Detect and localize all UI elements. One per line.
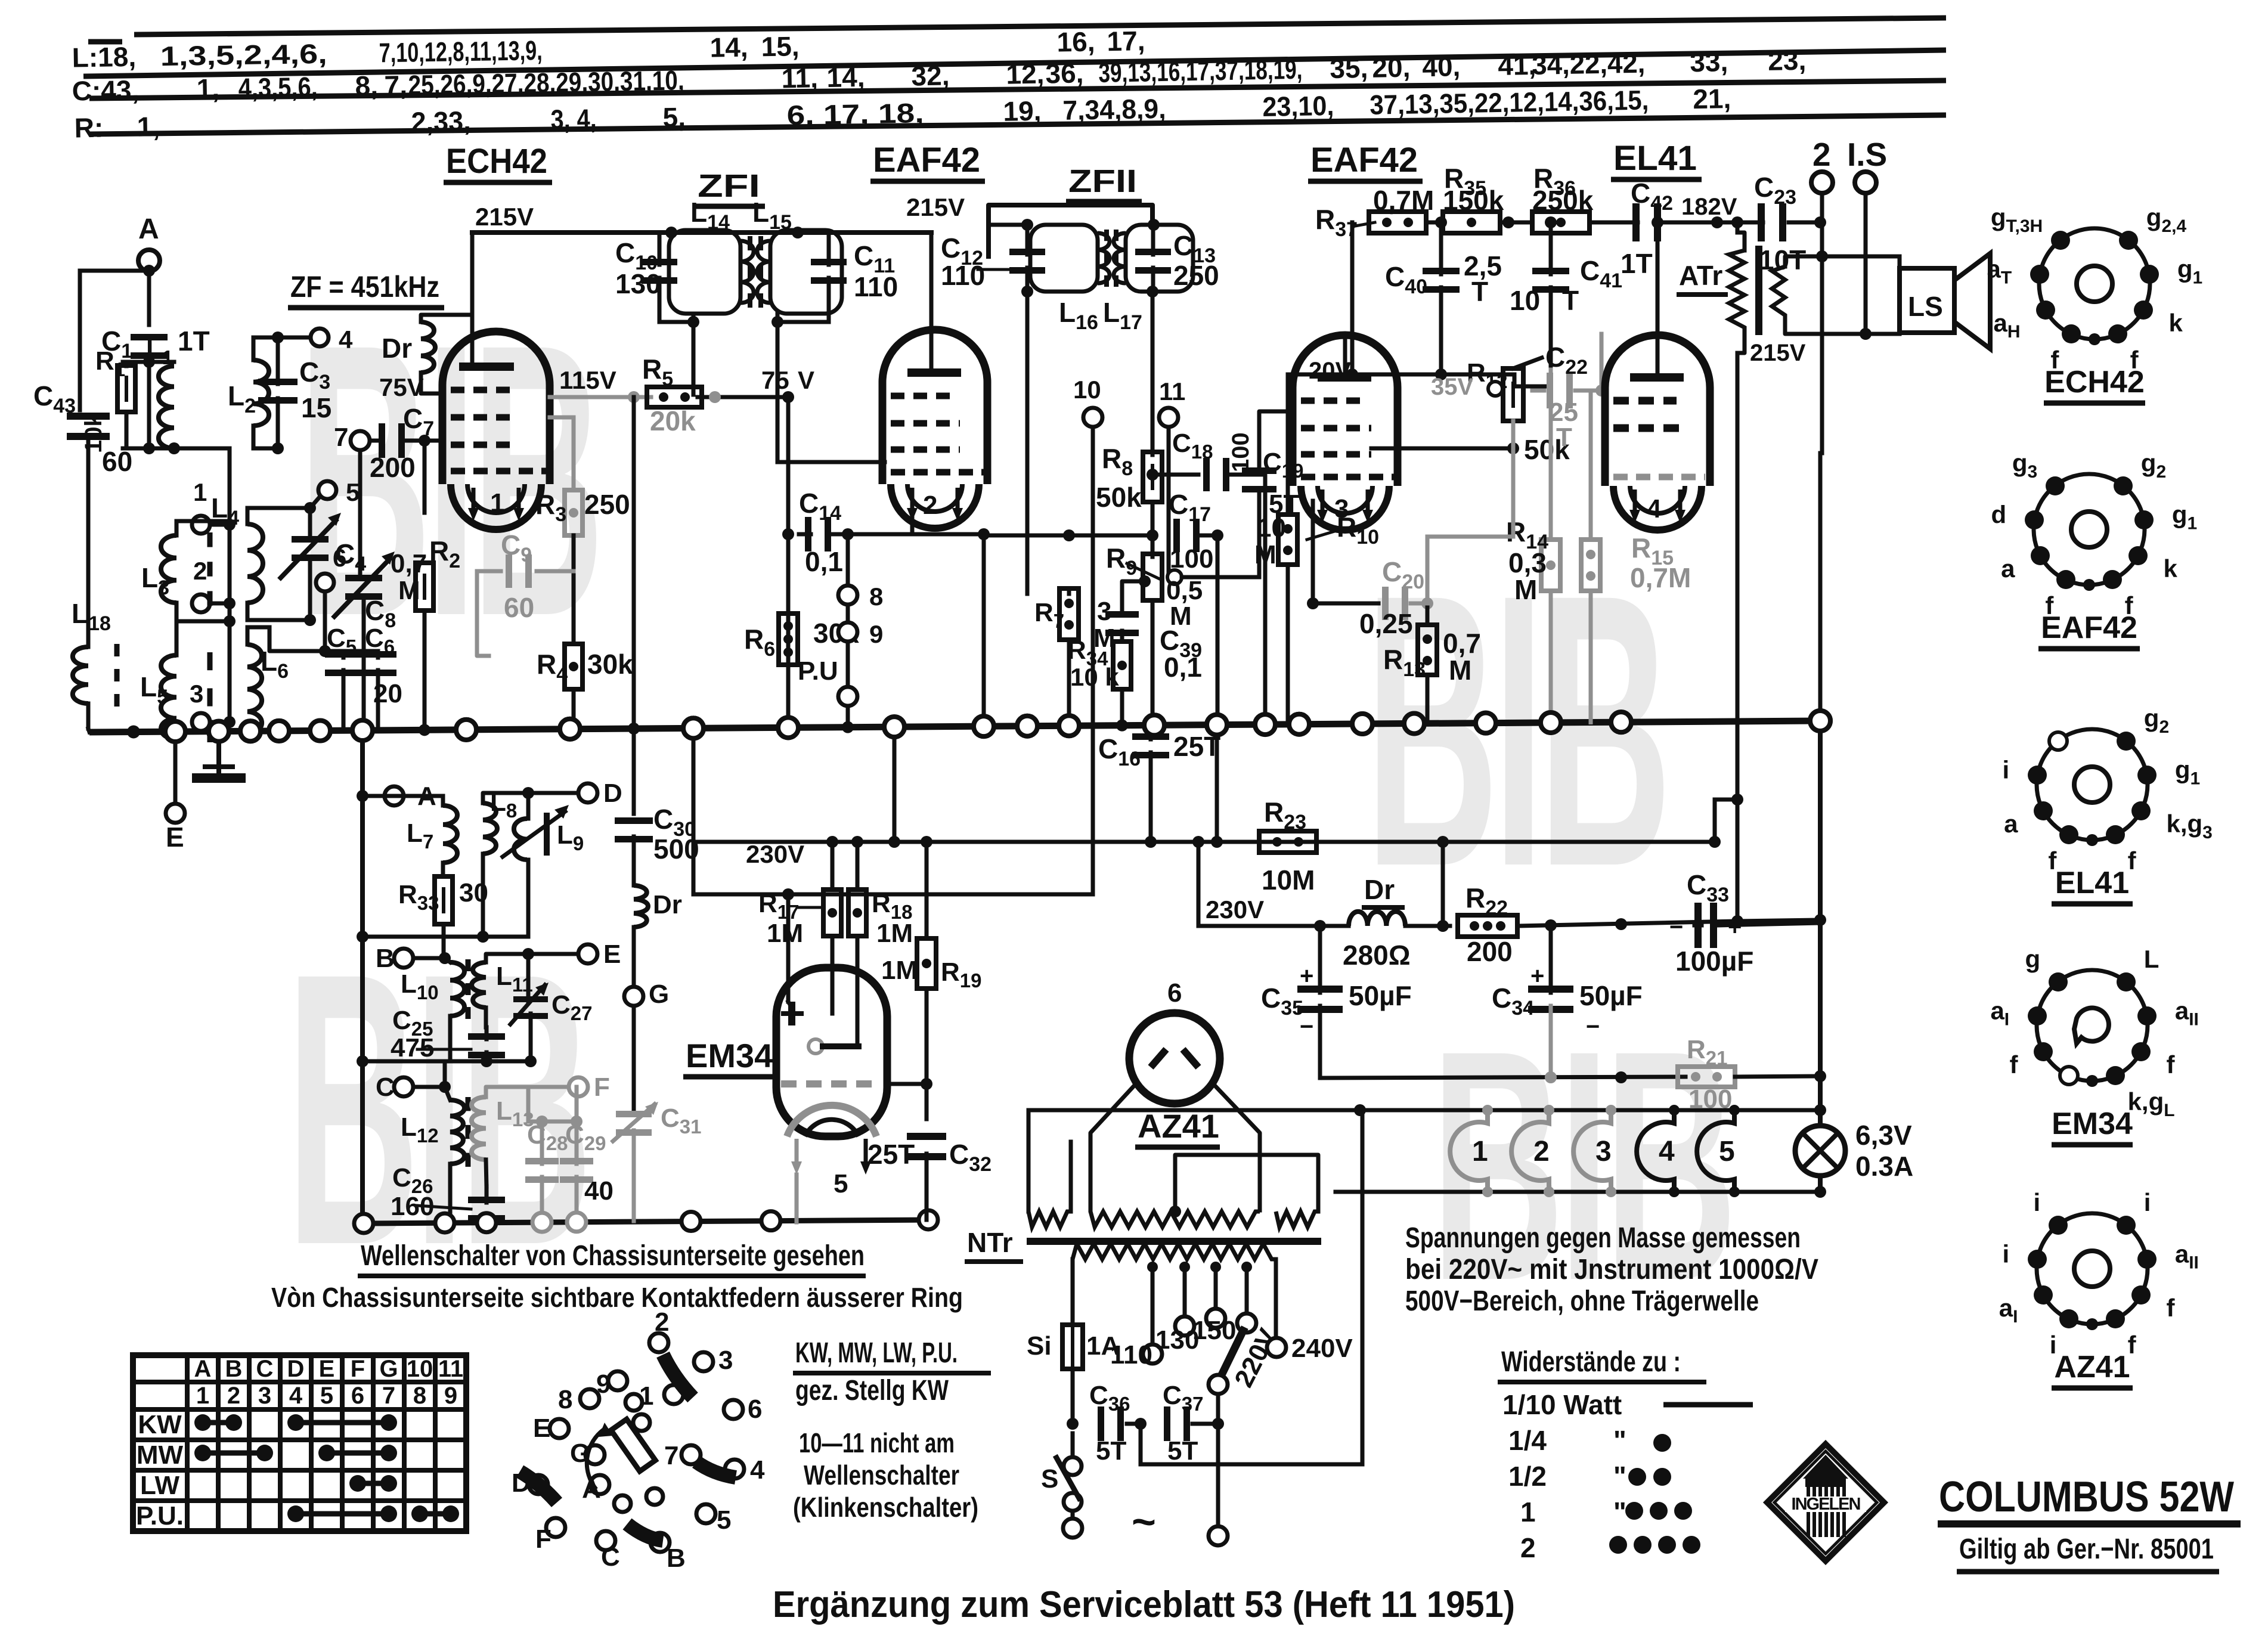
svg-text:0,1: 0,1	[805, 546, 843, 577]
wire C11 top	[827, 233, 831, 265]
wire ZFII right to C18	[1152, 473, 1198, 477]
junction	[1212, 529, 1223, 541]
resistor	[1443, 212, 1500, 233]
junction	[792, 227, 804, 238]
wire to E	[528, 952, 578, 956]
wire C6 to bus	[376, 670, 380, 730]
svg-text:6: 6	[1167, 978, 1182, 1008]
coil	[443, 805, 457, 863]
wire	[1532, 389, 1544, 393]
winding	[1090, 1212, 1260, 1227]
terminal	[351, 431, 370, 450]
svg-text:1A: 1A	[1086, 1331, 1120, 1361]
terminal	[1206, 1309, 1225, 1328]
wire	[528, 1120, 577, 1124]
socket AZ41	[2037, 1213, 2148, 1324]
svg-text:25,26,9,27,28,29,30,31,10,: 25,26,9,27,28,29,30,31,10,	[408, 64, 684, 100]
wire	[413, 1085, 445, 1089]
wire	[1820, 256, 1824, 453]
svg-text:−: −	[1300, 1014, 1313, 1040]
svg-text:V: V	[798, 366, 814, 394]
wire up to tube	[910, 495, 915, 534]
junction	[439, 952, 451, 964]
wire terminal IS down	[1864, 193, 1868, 334]
wire 75V vertical	[786, 397, 791, 727]
capacitor	[1632, 203, 1661, 241]
capacitor	[325, 651, 362, 676]
junction	[1502, 216, 1514, 228]
svg-text:240V: 240V	[1291, 1334, 1353, 1363]
parts list rule 1	[134, 18, 1946, 35]
variable capacitor	[292, 536, 329, 561]
wire R34 to bus	[1120, 690, 1124, 726]
switch contact 3	[694, 1352, 713, 1371]
junction	[1147, 286, 1158, 298]
svg-text:2: 2	[1520, 1532, 1536, 1563]
svg-text:R:: R:	[74, 112, 103, 144]
resistor	[1418, 625, 1437, 675]
svg-text:L: L	[2144, 945, 2159, 973]
junction	[1063, 529, 1075, 541]
junction	[1709, 836, 1721, 848]
wire ATr primary top	[1737, 233, 1745, 250]
wire L5 to bus	[175, 732, 179, 739]
wire L18 to bus	[86, 704, 91, 729]
terminal	[1064, 1493, 1082, 1511]
junction	[1435, 368, 1447, 380]
chassis connection	[209, 721, 229, 742]
resistor	[565, 644, 583, 689]
svg-text:AZ41: AZ41	[1138, 1107, 1219, 1145]
svg-text:G: G	[649, 980, 669, 1009]
EM34 arrows	[795, 1139, 799, 1169]
svg-text:AZ41: AZ41	[2054, 1350, 2130, 1384]
wire	[1822, 332, 1900, 336]
resistor	[1541, 540, 1560, 591]
svg-text:EAF42: EAF42	[1310, 141, 1418, 179]
wire	[334, 649, 378, 653]
svg-text:280Ω: 280Ω	[1343, 940, 1411, 971]
wire	[1336, 1190, 1820, 1194]
tube V4 EL41	[1605, 335, 1710, 486]
wire	[483, 793, 528, 803]
tube V6 EM34	[776, 968, 887, 1136]
wire L4 top	[246, 508, 250, 524]
wire	[123, 360, 174, 364]
chassis connection	[1810, 711, 1830, 731]
svg-text:": "	[1613, 1497, 1626, 1528]
capacitor	[379, 423, 405, 458]
svg-text:C: C	[256, 1356, 274, 1382]
svg-text:k: k	[2163, 554, 2177, 583]
svg-text:ZF = 451kHz: ZF = 451kHz	[290, 270, 439, 303]
wire	[510, 985, 545, 1024]
terminal	[1083, 408, 1102, 427]
svg-text:": "	[1613, 1425, 1626, 1456]
wire	[443, 1061, 447, 1087]
svg-text:M: M	[1093, 624, 1116, 653]
wire	[485, 1186, 489, 1203]
row C numbers	[72, 45, 1806, 107]
svg-text:100µF: 100µF	[1675, 946, 1753, 977]
svg-text:E: E	[319, 1356, 335, 1382]
resistor	[1503, 368, 1523, 421]
junction	[1147, 469, 1158, 481]
wire	[693, 840, 1715, 844]
switch contact E	[550, 1419, 569, 1438]
chassis connection	[560, 719, 580, 739]
chassis connection	[165, 721, 185, 742]
junction	[1139, 575, 1151, 587]
terminal	[394, 1077, 413, 1096]
terminal	[838, 687, 857, 706]
core	[207, 532, 213, 606]
switch contact 1	[664, 1385, 683, 1404]
terminal	[578, 944, 597, 963]
LW contacts	[358, 1481, 389, 1486]
wire C34 top	[1549, 926, 1553, 993]
wire 20V node	[1288, 373, 1441, 377]
capacitor	[1423, 268, 1460, 293]
loudspeaker LS	[1900, 268, 1954, 333]
svg-text:G: G	[379, 1356, 398, 1382]
wire	[659, 320, 693, 324]
chassis connection	[1059, 715, 1079, 736]
wire grid leak down	[423, 441, 427, 513]
switch contact 5	[696, 1504, 715, 1523]
svg-text:4: 4	[339, 326, 353, 354]
wire R14 to bus	[1549, 591, 1553, 723]
wire	[893, 727, 897, 839]
INGELEN logo	[1767, 1444, 1884, 1561]
svg-text:32,: 32,	[911, 60, 950, 91]
resistor	[1278, 515, 1297, 565]
wire C33 to rail	[1717, 923, 1820, 925]
wire	[1350, 334, 1355, 374]
tube V2 EAF42	[882, 330, 987, 484]
svg-text:COLUMBUS 52W: COLUMBUS 52W	[1939, 1473, 2234, 1521]
junction	[1507, 442, 1519, 454]
svg-text:k: k	[2168, 309, 2183, 337]
wire C40 top	[1439, 230, 1443, 274]
junction	[782, 391, 794, 403]
switch contact C	[596, 1531, 615, 1550]
wire C11 bottom	[827, 278, 831, 322]
electrode	[823, 1043, 859, 1049]
wire to C33	[1737, 920, 1820, 921]
svg-text:6,3V: 6,3V	[1855, 1120, 1912, 1151]
junction	[1354, 1104, 1366, 1116]
capacitor	[615, 817, 653, 842]
fuse Si 1A	[1062, 1325, 1083, 1369]
wire R1 bottom	[125, 413, 129, 448]
chassis connection	[1611, 712, 1631, 732]
terminal	[1209, 1526, 1228, 1545]
junction	[1860, 328, 1872, 340]
svg-text:200: 200	[1467, 936, 1513, 967]
svg-text:KW: KW	[138, 1410, 182, 1439]
switch contact D	[529, 1475, 548, 1494]
svg-text:C: C	[376, 1073, 395, 1102]
svg-text:0,1: 0,1	[1164, 652, 1202, 683]
svg-text:a: a	[2004, 810, 2018, 838]
wire	[1151, 453, 1155, 455]
pot arrow	[1513, 358, 1542, 368]
switch contact B	[650, 1533, 670, 1552]
rotor arrow	[587, 1430, 603, 1489]
svg-text:0,5: 0,5	[1166, 576, 1203, 605]
capacitor	[1098, 1406, 1124, 1441]
svg-text:23,: 23,	[1768, 45, 1807, 76]
wire ZFI sec to grid	[776, 322, 780, 462]
wire bus to C16	[1149, 725, 1153, 739]
capacitor	[1528, 986, 1573, 1013]
IF transformer ZFI primary box	[669, 230, 740, 314]
svg-text:34,22,42,: 34,22,42,	[1532, 48, 1646, 80]
svg-text:14,: 14,	[826, 61, 865, 93]
wire R5 right	[698, 395, 788, 399]
wire anode to 215V rail	[470, 233, 475, 362]
wire R19 down	[925, 989, 929, 1119]
wire 7 to C8	[358, 450, 362, 574]
row R numbers	[74, 83, 1731, 143]
wire Dr top	[421, 315, 472, 322]
EM34 target arcs	[787, 1105, 876, 1136]
capacitor	[642, 259, 677, 284]
svg-text:Giltig ab Ger.−Nr. 85001: Giltig ab Ger.−Nr. 85001	[1959, 1533, 2214, 1565]
junction	[842, 721, 854, 733]
wire R10 to bus	[1286, 565, 1290, 724]
wire from terminal 1	[210, 523, 230, 527]
svg-text:215V: 215V	[1750, 340, 1806, 366]
junction	[477, 931, 489, 943]
chassis connection	[974, 716, 994, 736]
wire L2-C3 top	[253, 336, 310, 340]
capacitor	[1242, 467, 1276, 492]
svg-text:ECH42: ECH42	[446, 142, 547, 181]
svg-text:+: +	[1530, 963, 1544, 989]
wire	[540, 1121, 544, 1164]
wire R12 to tube	[1371, 447, 1513, 451]
wire	[481, 854, 485, 937]
wire	[1426, 221, 1443, 225]
ECH42 anode bar	[459, 362, 514, 371]
wire	[362, 1059, 531, 1064]
svg-text:75: 75	[761, 366, 789, 394]
junction	[1814, 216, 1826, 228]
svg-text:6: 6	[351, 1383, 364, 1409]
wire	[1694, 924, 1702, 928]
svg-text:5,: 5,	[662, 101, 686, 133]
wire bus to C30	[632, 729, 636, 814]
core	[207, 652, 213, 742]
svg-text:37,13,35,22,12,14,36,15,: 37,13,35,22,12,14,36,15,	[1370, 84, 1649, 120]
wire antenna down	[147, 271, 151, 325]
svg-text:5: 5	[1719, 1136, 1735, 1167]
capacitor	[1758, 203, 1786, 241]
wire	[376, 651, 380, 658]
svg-text:130: 130	[615, 268, 661, 299]
svg-text:4: 4	[289, 1383, 303, 1409]
wire	[175, 621, 179, 655]
svg-text:A: A	[138, 213, 159, 245]
EM34 dashes	[781, 1080, 872, 1087]
row L numbers	[72, 25, 1145, 73]
socket EM34	[2037, 970, 2148, 1081]
junction	[1731, 915, 1743, 927]
switch contact	[625, 1394, 642, 1411]
junction	[1669, 1105, 1680, 1116]
wire	[1198, 924, 1349, 928]
svg-text:110: 110	[854, 271, 898, 302]
svg-text:1: 1	[490, 488, 504, 518]
resistor	[848, 890, 866, 936]
wire C5 to bus	[342, 670, 346, 730]
resistor	[1143, 554, 1162, 600]
terminal	[808, 1039, 823, 1054]
wire C35 top	[1318, 926, 1322, 993]
svg-text:M: M	[398, 576, 420, 605]
svg-text:i: i	[2144, 1188, 2151, 1216]
terminal	[624, 987, 643, 1006]
wire C42 right	[1663, 221, 1717, 225]
wire down to bus circle	[1818, 453, 1823, 721]
wire R8 to R9	[1151, 502, 1155, 557]
wire	[788, 1002, 792, 1008]
junction	[1683, 1536, 1700, 1554]
wire	[448, 1016, 453, 1061]
chassis connection	[352, 720, 373, 741]
wire	[486, 1087, 528, 1097]
svg-text:C: C	[601, 1542, 620, 1572]
svg-text:g: g	[2025, 945, 2041, 973]
svg-text:20k: 20k	[650, 405, 696, 436]
wire	[1174, 1104, 1175, 1110]
junction antenna node	[143, 442, 155, 454]
leader R17	[799, 906, 822, 909]
wire primary left	[1071, 1259, 1075, 1322]
junction	[1421, 597, 1433, 609]
wire	[846, 642, 850, 687]
chassis connection	[1207, 715, 1227, 735]
svg-text:2: 2	[193, 557, 207, 585]
wire C14 left	[799, 532, 811, 537]
wire C32 down	[925, 1154, 929, 1220]
junction	[1482, 1105, 1493, 1116]
switch contact 2	[649, 1333, 668, 1352]
junction	[888, 836, 900, 848]
chassis connection	[681, 1212, 701, 1231]
wire	[147, 271, 151, 271]
wire tap up to C19	[1257, 494, 1262, 577]
heater filament 1	[1450, 1110, 1488, 1192]
svg-text:Vòn Chassisunterseite sichtbar: Vòn Chassisunterseite sichtbare Kontaktf…	[271, 1282, 963, 1313]
wire	[526, 793, 531, 819]
parts list rule 3	[89, 80, 1946, 98]
wire	[526, 860, 531, 937]
svg-text:~: ~	[1132, 1498, 1156, 1545]
svg-text:500: 500	[653, 834, 699, 865]
capacitor	[468, 1033, 505, 1058]
svg-text:5: 5	[717, 1505, 731, 1535]
svg-text:T: T	[1471, 276, 1488, 307]
wire ZFII right down to R8	[1151, 292, 1155, 453]
svg-text:6: 6	[333, 544, 346, 572]
svg-text:1,: 1,	[137, 111, 160, 142]
terminal	[838, 622, 857, 642]
heater filament 5	[1697, 1110, 1734, 1192]
wire R9 to bus	[1151, 600, 1155, 725]
wire R15 top	[1589, 391, 1593, 540]
wire C19 top	[1259, 411, 1288, 467]
svg-text:3: 3	[718, 1346, 733, 1375]
terminal	[166, 804, 185, 823]
IF transformer ZFII primary box	[1030, 225, 1098, 292]
wire C43 top	[78, 271, 82, 410]
wire to LS	[1822, 255, 1900, 259]
junction	[224, 597, 236, 609]
junction	[978, 528, 990, 540]
svg-text:10T: 10T	[1759, 244, 1806, 275]
wire	[486, 954, 528, 962]
chassis connection	[919, 1210, 938, 1229]
chassis connection	[974, 716, 994, 736]
coil	[483, 803, 497, 854]
wire	[572, 417, 576, 490]
switch contact 4	[725, 1460, 744, 1479]
wire	[1514, 374, 1551, 386]
junction	[772, 316, 783, 328]
coil	[740, 241, 754, 303]
wire L4 bottom	[246, 603, 250, 620]
wire terminal 6 down	[323, 592, 327, 651]
switch contact	[646, 1488, 663, 1505]
svg-text:1/10 Watt: 1/10 Watt	[1502, 1389, 1622, 1420]
junction	[1021, 286, 1033, 298]
winding	[1772, 267, 1785, 320]
svg-text:10k: 10k	[80, 413, 107, 453]
wire R17 into tube	[831, 936, 835, 1014]
junction	[1711, 216, 1723, 228]
chassis connection	[1144, 715, 1164, 735]
wire	[1071, 1511, 1075, 1519]
svg-text:39,13,16,17,37,18,19,: 39,13,16,17,37,18,19,	[1098, 54, 1303, 88]
junction	[1615, 918, 1627, 930]
wire	[632, 397, 636, 729]
chassis connection	[1611, 712, 1631, 732]
chassis connection	[1541, 712, 1561, 733]
wire	[1169, 465, 1198, 475]
wire	[1500, 221, 1532, 225]
svg-text:14,: 14,	[709, 32, 748, 63]
wire	[795, 1175, 799, 1222]
terminal	[1159, 408, 1178, 427]
svg-text:12,: 12,	[1006, 58, 1045, 89]
svg-text:3: 3	[1595, 1136, 1612, 1167]
wire to C23	[1717, 221, 1763, 225]
svg-text:Spannungen gegen Masse gemesse: Spannungen gegen Masse gemessen	[1405, 1222, 1801, 1254]
resistor	[1532, 212, 1590, 233]
wire C10 top	[658, 233, 662, 265]
wire C34 bottom	[1549, 1006, 1553, 1078]
wire	[1069, 1142, 1073, 1212]
svg-text:17,: 17,	[1107, 25, 1145, 57]
svg-text:41,: 41,	[1498, 49, 1536, 81]
junction	[568, 723, 580, 735]
svg-text:5T: 5T	[1096, 1436, 1126, 1466]
svg-text:MW: MW	[137, 1440, 184, 1470]
wire C31 down	[632, 1130, 636, 1221]
